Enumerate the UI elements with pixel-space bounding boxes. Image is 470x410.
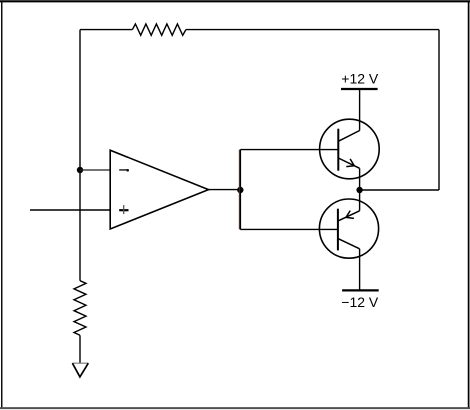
transistor Q1 (NPN, top) — [320, 89, 380, 190]
op-amp minus label — [119, 169, 128, 171]
wire: top feedback right segment — [186, 29, 439, 31]
node C (emitter junction between Q1 and Q2) — [356, 187, 362, 193]
wire: right vertical feedback — [438, 30, 440, 190]
wire: R2 to ground — [79, 335, 81, 363]
resistor R1 (feedback, horizontal) — [132, 24, 186, 35]
resistor R2 (to ground, vertical) — [74, 281, 86, 336]
transistor Q2 (PNP, bottom) — [319, 190, 378, 290]
op-amp U1 — [110, 150, 208, 229]
wire: non-inverting input lead — [30, 209, 110, 211]
node A (inverting input junction) — [77, 167, 83, 173]
wire: output to right vertical — [360, 189, 440, 191]
svg-text:−12 V: −12 V — [341, 294, 379, 310]
wire: base lead to Q1 — [240, 149, 338, 151]
op-amp plus label — [119, 205, 128, 214]
wire: op-amp output — [209, 189, 241, 191]
wire: top feedback left segment — [80, 29, 132, 31]
wire: inverting input lead — [80, 169, 110, 171]
wire: base bus vertical (dark red tint) — [238, 150, 240, 230]
wire: left vertical (feedback to inverting input and R2) — [79, 30, 81, 281]
border frame — [0, 0, 470, 2]
svg-text:+12 V: +12 V — [341, 71, 379, 87]
ground — [72, 362, 88, 364]
node B (output junction) — [237, 187, 243, 193]
wire: base lead to Q2 — [240, 228, 338, 230]
+12 V supply rail — [341, 88, 378, 90]
-12 V supply rail — [342, 289, 379, 291]
